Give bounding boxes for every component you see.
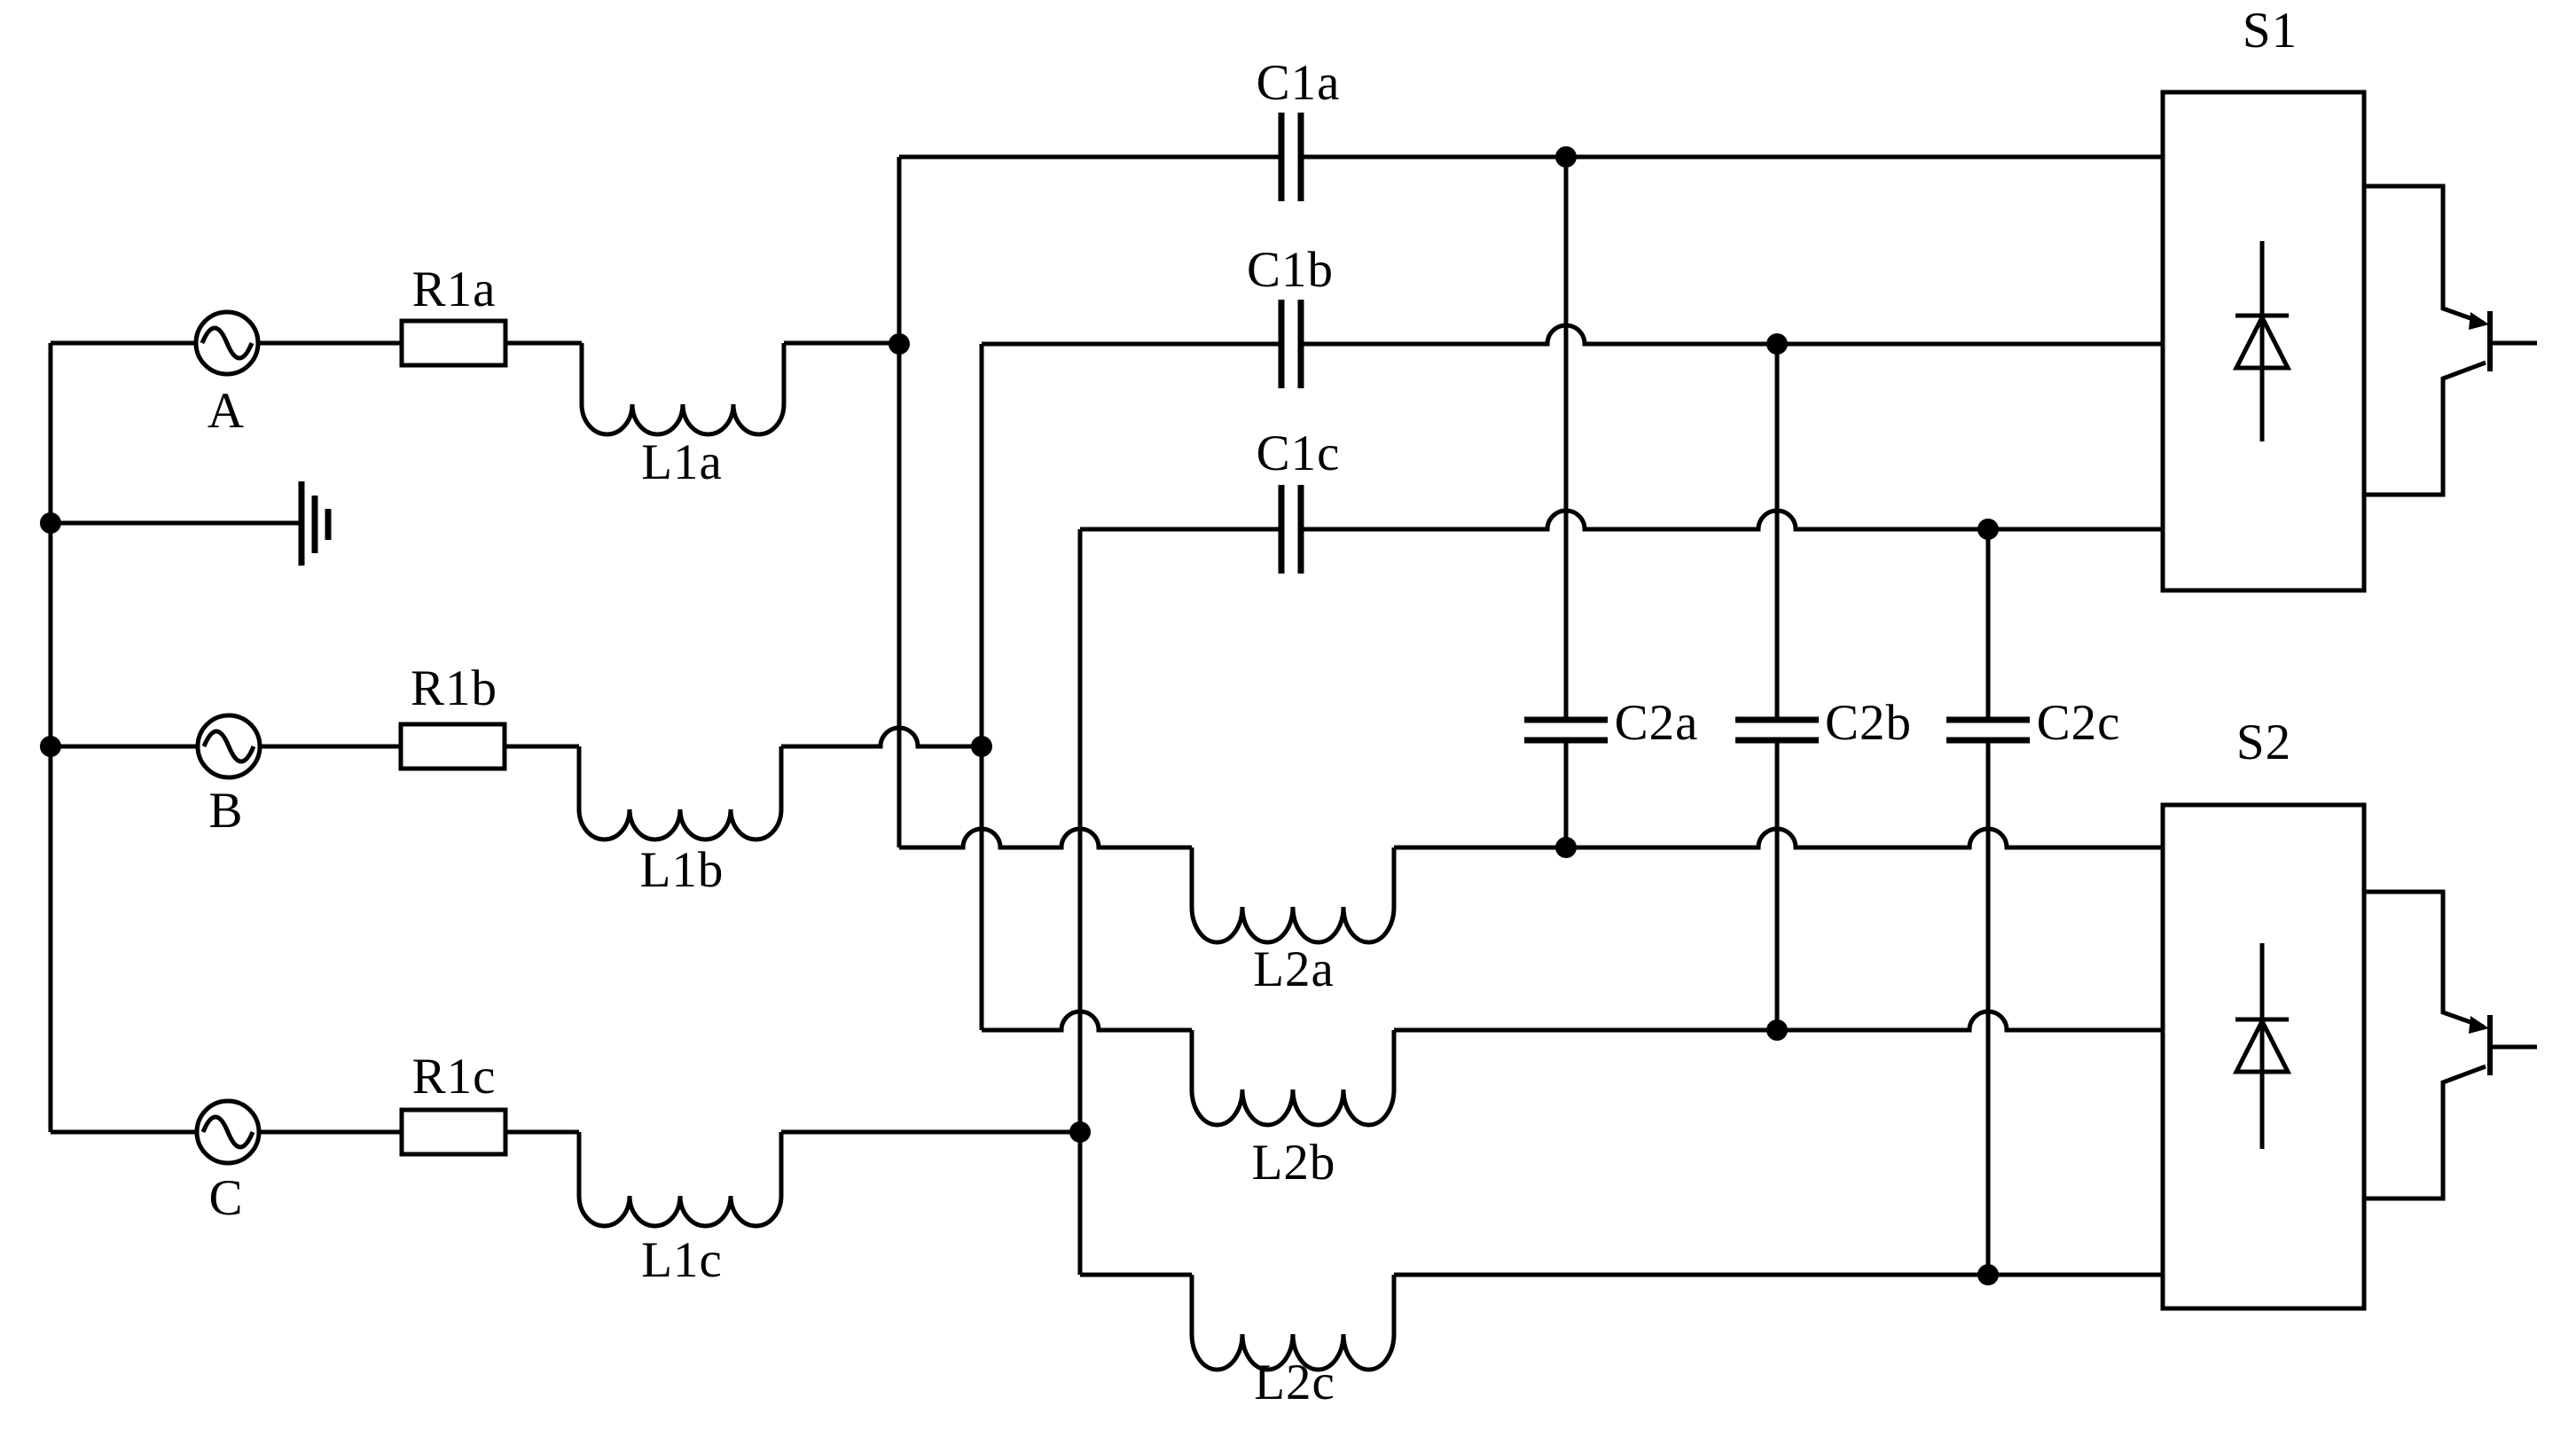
inductor L1b (579, 746, 781, 839)
wire R1c to L1c (505, 1130, 579, 1135)
diode D1 inside S1 (2235, 241, 2289, 441)
svg-text:R1c: R1c (412, 1049, 497, 1105)
source A (AC voltage source) (196, 312, 258, 374)
svg-text:R1b: R1b (411, 660, 497, 716)
capacitor C1c (1281, 485, 1301, 574)
wire L2a to S2 top with hops over C2b and C2c buses (1394, 829, 2163, 847)
svg-text:A: A (207, 383, 245, 439)
capacitor C2c (1946, 720, 2030, 740)
wire C2a bus lower (1564, 743, 1569, 847)
svg-text:C2c: C2c (2037, 695, 2121, 751)
wire C2c bus upper (1986, 529, 1991, 717)
wire top bus left segment (to C1a) (899, 155, 1279, 160)
svg-text:L1b: L1b (640, 842, 724, 898)
wire L2c row (1080, 1273, 1192, 1277)
resistor R1c (402, 1110, 505, 1154)
wire left bus vertical (49, 343, 53, 1132)
transistor Q1 (IGBT) of S1 (2364, 186, 2537, 495)
svg-text:C2b: C2b (1825, 695, 1912, 751)
svg-text:L1c: L1c (641, 1232, 723, 1288)
node C2a-bottom junction dot (1555, 837, 1577, 858)
wire source B to R1b (260, 745, 401, 749)
capacitor C1a (1281, 113, 1301, 201)
wire C1a to S1 top (1304, 155, 2163, 160)
inductor L2a (1192, 847, 1394, 942)
wire phase-C vertical bus (1078, 529, 1083, 1275)
capacitor C2a (1524, 720, 1608, 740)
node A-junction dot (889, 333, 910, 355)
wire phase-A vertical bus (897, 157, 902, 847)
node C2b-top junction dot (1766, 333, 1788, 355)
node C junction dot (1069, 1121, 1091, 1143)
capacitor C2b (1735, 720, 1819, 740)
wire phase-B vertical bus (980, 344, 984, 1030)
source B (AC voltage source) (198, 715, 260, 777)
svg-text:L2a: L2a (1253, 941, 1335, 997)
switch block S1 (2163, 92, 2364, 590)
wire L2c to S2 bottom (1394, 1273, 2163, 1277)
wire R1b to L1b (505, 745, 579, 749)
node B-bus junction dot (40, 736, 61, 757)
wire C2c bus lower (1986, 743, 1991, 1275)
svg-text:C1b: C1b (1247, 242, 1334, 298)
svg-text:S1: S1 (2243, 3, 2298, 59)
wire source C to R1c (259, 1130, 402, 1135)
wire L2b row with hop over C bus (982, 1011, 1192, 1030)
source C (AC voltage source) (197, 1101, 259, 1163)
inductor L1a (582, 343, 784, 434)
svg-text:C1c: C1c (1257, 426, 1341, 481)
svg-text:C2a: C2a (1615, 695, 1699, 751)
svg-text:C: C (208, 1170, 243, 1226)
wire phase B row: bus to source B (51, 745, 198, 749)
inductor L2b (1192, 1030, 1394, 1125)
node ground-bus junction dot (40, 512, 61, 534)
wire C1c row left segment (1080, 527, 1279, 532)
svg-text:L2c: L2c (1254, 1355, 1335, 1410)
svg-text:S2: S2 (2236, 714, 2291, 770)
wire C1b to S1 middle with hop over C2a bus (1304, 325, 2163, 344)
diode D2 inside S2 (2235, 943, 2289, 1149)
wire phase A row: bus to source A (51, 341, 196, 346)
switch block S2 (2163, 805, 2364, 1308)
wire C2b bus upper (1775, 344, 1780, 717)
wire C2a bus upper (1564, 157, 1569, 717)
svg-text:L1a: L1a (641, 434, 723, 490)
wire source A to R1a (258, 341, 402, 346)
resistor R1b (401, 724, 505, 769)
wire L1b to B bus with hop over A bus (781, 728, 982, 746)
svg-text:B: B (208, 783, 243, 839)
wire R1a to L1a (505, 341, 582, 346)
node C2b-bottom junction dot (1766, 1019, 1788, 1041)
wire L2a row with hops over B and C buses (899, 829, 1192, 847)
capacitor C1b (1281, 300, 1301, 388)
node C2a-top junction dot (1555, 146, 1577, 168)
wire C1b row left segment (982, 342, 1279, 347)
wire L1a to node A-junction (784, 341, 899, 346)
node C2c-bottom junction dot (1977, 1264, 1999, 1285)
wire C2b bus lower (1775, 743, 1780, 1030)
transistor Q2 (IGBT) of S2 (2364, 892, 2537, 1199)
svg-text:R1a: R1a (412, 262, 497, 317)
ground (51, 481, 328, 566)
wire phase C row: bus to source C (51, 1130, 197, 1135)
node C2c-top junction dot (1977, 519, 1999, 540)
wire C1c to S1 bottom with hops over C2a and C2b buses (1304, 511, 2163, 529)
wire L1c to C bus (781, 1130, 1080, 1135)
svg-text:C1a: C1a (1257, 55, 1341, 111)
resistor R1a (402, 321, 505, 365)
wire L2b to S2 middle with hop over C2c bus (1394, 1011, 2163, 1030)
svg-text:L2b: L2b (1252, 1135, 1336, 1191)
node B junction dot (971, 736, 992, 757)
inductor L2c (1192, 1275, 1394, 1370)
inductor L1c (579, 1132, 781, 1226)
